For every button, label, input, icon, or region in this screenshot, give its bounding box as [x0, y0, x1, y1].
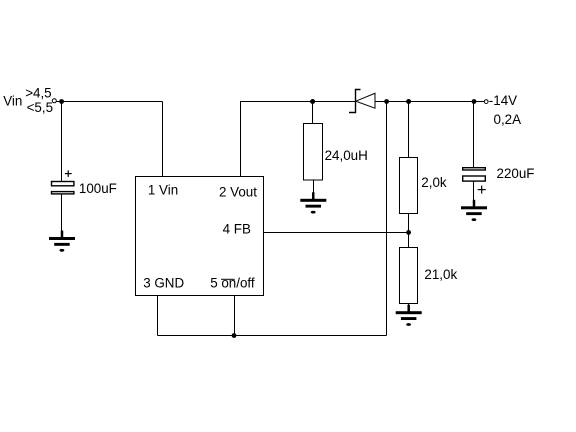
svg-text:-14V: -14V	[489, 93, 517, 108]
svg-text:3 GND: 3 GND	[143, 276, 184, 291]
svg-text:21,0k: 21,0k	[424, 267, 457, 282]
svg-text:24,0uH: 24,0uH	[325, 148, 368, 163]
svg-text:Vin: Vin	[3, 94, 22, 109]
svg-text:0,2A: 0,2A	[494, 112, 522, 127]
svg-text:2 Vout: 2 Vout	[219, 184, 257, 199]
svg-text:4 FB: 4 FB	[223, 222, 251, 237]
svg-text:>4,5: >4,5	[25, 86, 51, 101]
svg-text:2,0k: 2,0k	[421, 175, 447, 190]
svg-text:100uF: 100uF	[79, 181, 117, 196]
svg-text:5 on/off: 5 on/off	[210, 276, 255, 291]
svg-text:1 Vin: 1 Vin	[148, 182, 178, 197]
svg-text:220uF: 220uF	[497, 166, 535, 181]
svg-text:<5,5: <5,5	[27, 100, 53, 115]
